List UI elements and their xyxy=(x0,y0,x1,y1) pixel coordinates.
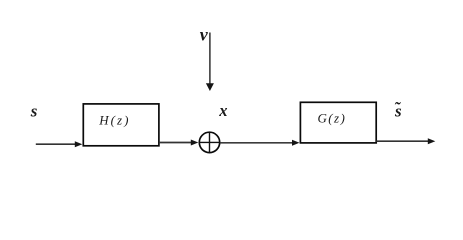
svg-text:s: s xyxy=(30,102,38,121)
svg-text:x: x xyxy=(218,101,227,120)
svg-text:v: v xyxy=(200,25,209,45)
svg-text:H(z): H(z) xyxy=(98,113,130,128)
svg-text:G(z): G(z) xyxy=(318,111,347,126)
